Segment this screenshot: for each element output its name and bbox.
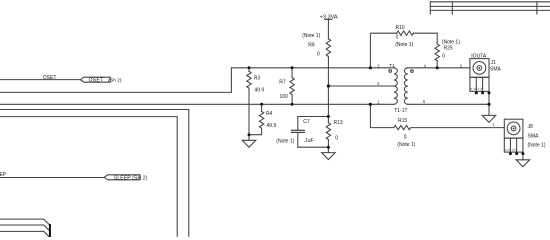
wire pin 6 to J1 ground [408,103,489,105]
sheet border inner rectangle [0,117,177,237]
T1 right phase dot [411,70,414,73]
svg-text:R3: R3 [254,75,261,81]
connector J1 SMA [470,59,489,105]
svg-text:J8: J8 [528,124,534,130]
svg-text:R7: R7 [279,79,286,85]
svg-text:(Note 1): (Note 1) [276,139,294,145]
sheet border outer rectangle [0,110,189,238]
svg-text:+3.3VA: +3.3VA [320,14,338,20]
junction J8 shield pin 2-3 [509,152,512,155]
junction J8 shield pin 3-4 [515,152,518,155]
transformer T1 left winding [389,68,397,104]
resistor R25 (0 ohm, vertical) [435,44,439,68]
ground under R13/C7 [322,147,336,159]
svg-text:R10: R10 [396,25,405,31]
svg-text:0: 0 [404,135,407,141]
svg-text:6: 6 [423,99,426,104]
svg-text:0: 0 [396,35,399,41]
svg-text:T1: T1 [389,63,395,68]
junction C7/R13 bottom [327,146,330,149]
svg-text:(Note 1): (Note 1) [397,142,415,148]
svg-text:49.9: 49.9 [254,88,264,94]
junction J1 shield pin 2-3 [475,91,478,94]
svg-text:SLEEP (SH 2): SLEEP (SH 2) [114,175,148,181]
wire pin 4 to J1 [408,67,470,69]
svg-text:R15: R15 [398,118,407,124]
capacitor C7 wiring top tap [298,116,329,118]
junction J1 shield pin 4-5 [488,91,491,94]
net flag SLEEP (SH 2) [104,175,140,180]
svg-text:.1uF: .1uF [304,138,314,144]
svg-text:T1-1T: T1-1T [394,108,407,114]
capacitor C7 [292,117,305,148]
junction R3 top on top bus [248,66,251,69]
transformer T1 right winding [404,68,413,104]
stacked sheets symbol (bottom left) [0,219,50,238]
svg-text:OSET: OSET [43,75,57,81]
ground under J8 [516,160,530,167]
junction R7 top on top bus [291,66,294,69]
junction C7 top tap [327,115,330,118]
resistor R13 (0 ohm, vertical) [326,123,330,148]
svg-text:OSET: OSET [89,78,104,84]
capacitor C7 bottom wire [298,146,329,148]
svg-text:(Sh 2): (Sh 2) [108,78,121,84]
resistor R7 (100, vertical) [290,68,294,105]
wire OSET [0,79,80,81]
wire R15 net from pin1 bus [370,104,394,127]
connector J8 SMA [504,119,523,160]
svg-text:100: 100 [280,94,289,100]
resistor R9 (0 ohm, vertical, +3.3VA to center tap) [326,19,330,86]
svg-text:IOUTA: IOUTA [471,54,487,60]
junction pin 6 wire to J1 shield [487,103,490,106]
svg-text:49.9: 49.9 [267,123,277,129]
wire pin 2 center tap [328,85,394,87]
ground under J1 [482,104,496,122]
wire lower bus (pin 1 net) [0,103,394,105]
svg-text:R13: R13 [334,120,343,126]
resistor R15 (0 ohm, horizontal) [394,125,504,129]
junction R7 bottom on lower bus [291,103,294,106]
svg-text:2⌠3⌠4⌠5: 2⌠3⌠4⌠5 [470,87,483,91]
net flag OSET (SH 2) [80,77,110,82]
svg-text:0: 0 [335,136,338,142]
power symbol +3.3VA [325,18,332,20]
junction R25 on pin 4 wire [436,66,439,69]
svg-text:SMA: SMA [528,134,540,140]
wire IOUTA from DAC (left) with corner up to top bus [0,68,231,93]
junction dots [248,66,525,155]
svg-text:1: 1 [492,122,495,127]
junction center column to pin 2 wire [327,84,330,87]
wire top bus (pin 3 net) [231,67,394,69]
svg-text:0: 0 [317,52,320,58]
junction J1 shield pin 3-4 [481,91,484,94]
wire SLEEP [0,177,104,179]
svg-text:SMA: SMA [490,67,502,73]
junction R3/R4 to ground [248,133,251,136]
svg-text:R4: R4 [266,111,273,117]
junction R4 top on lower bus [260,103,263,106]
T1 left phase dot [389,70,392,73]
resistor R10 (0 ohm, horizontal) with taps [370,31,437,68]
svg-text:(Note 1): (Note 1) [302,33,320,39]
svg-text:1: 1 [377,99,380,104]
resistor R4 (49.9, vertical) [249,104,264,134]
svg-text:C7: C7 [303,119,310,125]
svg-text:(Note 1): (Note 1) [395,42,413,48]
svg-text:R9: R9 [308,43,315,49]
junction R10 tap on top bus [369,66,372,69]
svg-text:2⌠3⌠4⌠5: 2⌠3⌠4⌠5 [505,148,518,152]
svg-text:0: 0 [442,54,445,60]
svg-text:SLEEP: SLEEP [0,172,7,178]
title block table fragment (top right) [430,2,550,14]
resistor R3 (49.9, vertical) [247,68,251,135]
junction J8 shield pin 4-5 [521,152,524,155]
wire center column below pin2 tap down to R13 [327,86,329,123]
junction R15 tap on lower bus [369,103,372,106]
svg-text:R25: R25 [444,45,453,51]
svg-text:J1: J1 [491,60,497,66]
svg-text:2: 2 [377,81,380,86]
ground under R3/R4 [242,135,256,148]
svg-text:(Note 1): (Note 1) [528,142,546,148]
